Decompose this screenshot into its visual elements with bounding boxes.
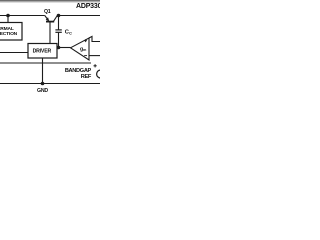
wire Q1 base to driver top <box>49 22 51 44</box>
background <box>0 0 100 100</box>
wire driver bottom down to ground rail <box>42 58 44 84</box>
wire from IN rail node down to thermal protection block <box>7 16 9 23</box>
svg-text:Q1: Q1 <box>44 9 51 15</box>
svg-text:CC: CC <box>65 30 72 36</box>
label + polarity of reference <box>94 64 97 67</box>
wire capacitor bottom to driver output node <box>58 32 60 47</box>
svg-text:GND: GND <box>37 88 48 94</box>
node collector / capacitor tap junction <box>57 14 61 18</box>
driver block U1 <box>28 44 57 59</box>
node IN rail / thermal tap junction <box>6 14 10 18</box>
label - input <box>84 55 87 57</box>
pin - input wire <box>89 55 100 57</box>
svg-text:PROTECTION: PROTECTION <box>0 31 18 37</box>
svg-text:gm: gm <box>80 47 86 53</box>
top cropped edge band <box>0 0 100 1</box>
pin + input bend wire <box>89 36 100 41</box>
wire shutdown input into driver <box>0 52 28 54</box>
svg-text:REF: REF <box>81 74 92 80</box>
svg-text:DRIVER: DRIVER <box>33 48 52 54</box>
op-amp gm error amplifier <box>71 36 101 60</box>
wire driver output to op-amp apex <box>57 47 71 49</box>
node driver output / capacitor / op-amp junction <box>57 46 61 50</box>
wire IN rail left segment <box>0 15 45 17</box>
wire noise-reduction net (left edge to bandgap) <box>0 62 91 64</box>
transistor Q1 (PNP pass device) <box>45 16 58 22</box>
wire IN rail right segment (collector to OUT, cut at right edge) <box>57 15 100 17</box>
node ground junction <box>41 82 45 86</box>
bandgap reference source symbol (circle, cut at right edge) <box>97 70 105 78</box>
ground rail <box>0 83 100 85</box>
thermal protection block <box>0 23 22 41</box>
capacitor CC (compensation) <box>55 30 61 32</box>
wire collector node down to compensation capacitor <box>58 16 60 30</box>
label + input <box>84 39 87 42</box>
svg-text:THERMAL: THERMAL <box>0 26 14 32</box>
svg-text:ADP3300: ADP3300 <box>76 3 100 10</box>
